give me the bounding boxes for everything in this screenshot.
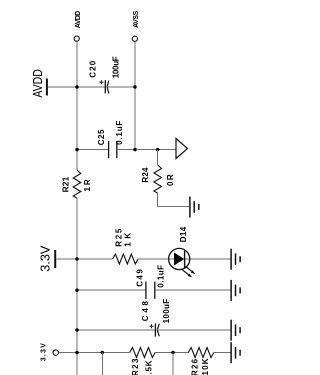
node: rail6/lineA junction: [75, 351, 78, 354]
resistor R21 1R: [62, 170, 92, 198]
wire: R24 to ground: [157, 193, 159, 207]
wire: AVSS vertical line: [134, 41, 136, 149]
svg-text:0R: 0R: [166, 174, 175, 186]
svg-text:10K: 10K: [201, 358, 210, 375]
svg-text:3.3V: 3.3V: [38, 245, 53, 272]
wire: rail2 left: [77, 149, 109, 151]
ground (rail6): [231, 342, 240, 363]
svg-text:100uF: 100uF: [162, 299, 171, 324]
svg-text:R24: R24: [141, 167, 150, 183]
capacitor C48 100uF: [141, 299, 171, 337]
svg-text:AVDD: AVDD: [75, 11, 82, 28]
node: rail1/lineA junction: [75, 85, 78, 88]
svg-text:1R: 1R: [83, 179, 92, 191]
wire: rail4 left: [77, 289, 146, 291]
ground (rail3 / LED): [231, 249, 240, 270]
wire: AVDD vertical line lower: [76, 198, 78, 375]
svg-text:R25: R25: [115, 228, 124, 247]
wire: rail3 bar to R25: [56, 258, 112, 260]
resistor R23 1.5K: [130, 348, 156, 375]
power symbol 3.3V (bar): [38, 245, 57, 272]
wire: rail1 left: [48, 86, 105, 88]
svg-text:1.5K: 1.5K: [145, 360, 154, 375]
capacitor C49 0.1uF: [136, 265, 166, 299]
capacitor C20 100uF: [89, 56, 121, 93]
svg-text:C25: C25: [97, 129, 106, 145]
svg-text:R23: R23: [131, 358, 140, 375]
svg-text:R26: R26: [190, 358, 199, 375]
resistor R25 1K: [113, 228, 139, 264]
wire: stub2 down: [172, 353, 174, 375]
off-page connector triangle: [176, 139, 188, 159]
terminal AVSS: [132, 10, 140, 41]
svg-text:C48: C48: [141, 300, 150, 321]
terminal 3.3V (bottom): [40, 343, 58, 361]
node: rail3/lineA junction: [75, 257, 78, 260]
wire: rail5 right: [157, 329, 230, 331]
wire: rail4 right: [155, 289, 231, 291]
node: rail2/R24 junction: [156, 148, 159, 151]
node: rail2/lineA junction: [75, 148, 78, 151]
terminal AVDD: [74, 11, 82, 41]
svg-text:0.1uF: 0.1uF: [115, 121, 124, 145]
wire: stub1 down: [101, 353, 103, 375]
wire: rail3 R25 to ground through LED: [138, 258, 231, 260]
ground (rail5): [231, 320, 240, 341]
node: rail4/lineA junction: [75, 289, 78, 292]
wire: rail1 right: [107, 86, 135, 88]
wire: AVDD vertical line upper: [76, 41, 78, 170]
resistor R24 0R: [141, 150, 175, 194]
node: rail6 stub1 junction: [101, 351, 104, 354]
wire: rail5 left: [77, 329, 155, 331]
ground (rail4): [231, 280, 240, 301]
node: rail6 stub2 junction: [171, 351, 174, 354]
node: rail2/AVSS junction: [133, 148, 136, 151]
node: rail5/lineA junction: [75, 328, 78, 331]
LED D14: [169, 226, 196, 277]
wire: rail2 right: [117, 149, 176, 151]
ground (R24): [190, 197, 199, 218]
svg-text:100uF: 100uF: [111, 56, 120, 78]
svg-text:D14: D14: [179, 226, 188, 242]
wire: rail6 segments: [58, 352, 129, 354]
svg-text:AVDD: AVDD: [30, 69, 45, 98]
node: rail1/AVSS junction: [133, 85, 136, 88]
power symbol AVDD (bar): [30, 69, 48, 98]
capacitor C25 0.1uF: [97, 121, 124, 159]
svg-text:C20: C20: [89, 60, 98, 78]
svg-text:AVSS: AVSS: [133, 10, 140, 28]
svg-text:C49: C49: [136, 269, 145, 287]
svg-text:0.1uF: 0.1uF: [156, 265, 165, 288]
svg-text:3.3V: 3.3V: [40, 343, 47, 361]
resistor R26 10K: [188, 348, 214, 375]
svg-text:R21: R21: [62, 176, 71, 192]
